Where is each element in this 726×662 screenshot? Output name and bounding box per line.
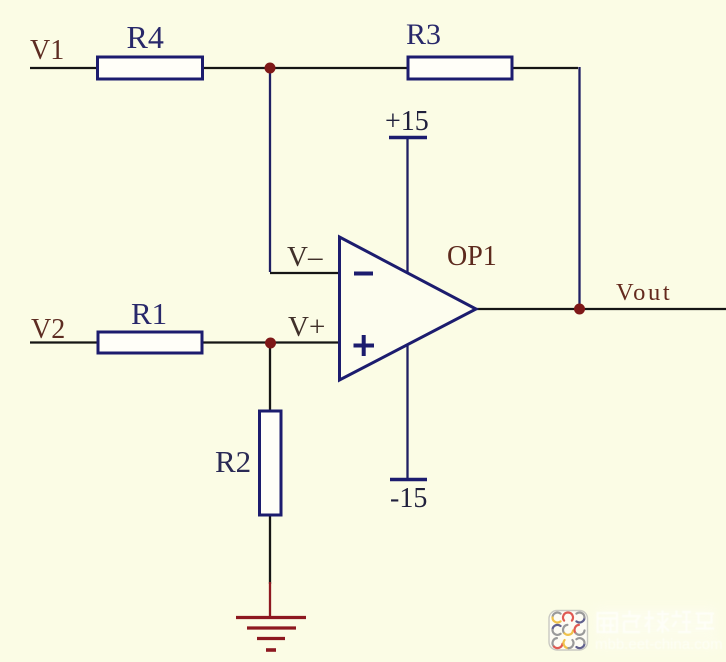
svg-text:R3: R3 [406,18,441,51]
svg-text:-15: -15 [390,483,427,514]
svg-text:R1: R1 [131,296,167,331]
svg-text:V–: V– [287,241,323,273]
svg-text:Vout: Vout [616,279,672,306]
svg-text:V+: V+ [288,311,325,343]
svg-text:R4: R4 [127,19,164,55]
svg-text:R2: R2 [215,444,251,479]
svg-text:mbb.eet-china.com: mbb.eet-china.com [595,636,723,653]
svg-text:V1: V1 [30,35,64,66]
svg-text:V2: V2 [31,314,65,345]
svg-text:OP1: OP1 [447,241,497,272]
svg-text:+15: +15 [385,106,429,137]
